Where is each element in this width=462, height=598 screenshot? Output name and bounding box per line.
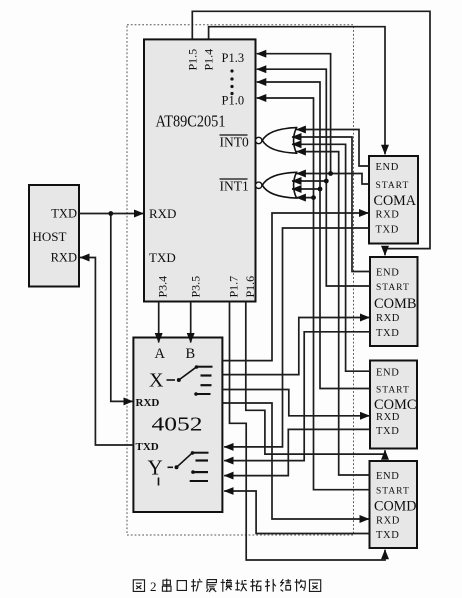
switch X contact 2 [201, 374, 212, 376]
wire branch COMC START to gate U3 input 3 [292, 188, 320, 190]
wire MCU P3.5 to 4052 B [190, 302, 192, 343]
wire COMA TXD to 4052 Y1 [224, 228, 369, 447]
switch X: pivot dot [177, 378, 181, 382]
switch Y: pivot dot [175, 465, 179, 469]
glyph 结 [280, 579, 291, 591]
glyph 模 [221, 579, 233, 592]
glyph 拓 [250, 579, 261, 592]
wire COMA START to gate U3 input 1 [296, 174, 369, 185]
junction dot START B / P1.2 [324, 179, 329, 184]
switch Y contact 3 [191, 470, 195, 474]
svg-text:RXD: RXD [376, 516, 400, 527]
svg-text:A: A [155, 346, 166, 362]
svg-text:P1.5: P1.5 [186, 49, 200, 71]
wire COMD START to MCU P1.0 [257, 98, 370, 490]
svg-text:4052: 4052 [152, 414, 203, 436]
svg-text:RXD: RXD [376, 313, 400, 324]
4052 multiplexer box [133, 338, 222, 513]
wire COMA END to gate U2 input 1 [296, 130, 369, 167]
switch Y contact 4 [190, 480, 208, 482]
svg-text:INT1: INT1 [220, 179, 249, 194]
gate U3 (4-input OR to INT1) body [262, 172, 296, 198]
glyph 扩 [191, 579, 202, 592]
wire COMC TXD to 4052 Y3 [224, 429, 370, 475]
gate U3 output bubble [256, 182, 262, 188]
MCU U1 AT89C2051 box [144, 39, 256, 301]
junction dot HOST TXD [108, 211, 113, 216]
svg-text:P3.5: P3.5 [189, 276, 203, 298]
svg-text:P1.7: P1.7 [227, 276, 241, 298]
svg-text:P1.3: P1.3 [222, 51, 245, 65]
COMC box [370, 361, 417, 449]
wire MCU P1.6 select to COMC bottom [246, 302, 385, 455]
svg-text:COMB: COMB [374, 296, 417, 312]
glyph 图 [310, 580, 321, 592]
svg-text:AT89C2051: AT89C2051 [156, 112, 226, 131]
svg-text:P1.4: P1.4 [202, 49, 216, 71]
svg-text:TXD: TXD [376, 426, 399, 437]
glyph 串 [162, 579, 171, 592]
ellipsis dots [230, 69, 233, 95]
wire COMD END to gate U2 input 4 [296, 152, 370, 475]
svg-text:TXD: TXD [376, 225, 399, 236]
svg-text:P1.0: P1.0 [222, 94, 245, 108]
gate U2 (4-input OR to INT0) body [262, 128, 296, 154]
wire MCU P1.7 select to COMD bottom [230, 302, 386, 561]
COMD box [370, 461, 418, 548]
svg-text:RXD: RXD [376, 210, 400, 221]
glyph 扑 [265, 579, 276, 592]
svg-text:RXD: RXD [136, 397, 160, 409]
svg-text:TXD: TXD [149, 250, 176, 265]
switch X: arm [179, 367, 196, 380]
wire COMC START to MCU P1.1 [257, 82, 370, 389]
glyph 块 [235, 580, 247, 591]
wire COMB TXD to 4052 Y2 [224, 332, 370, 461]
svg-text:START: START [376, 386, 410, 396]
svg-text:COMA: COMA [374, 193, 417, 209]
svg-text:Y: Y [148, 456, 163, 480]
Y channel tick [158, 478, 160, 486]
svg-text:START: START [376, 487, 410, 497]
HOST box [29, 185, 79, 287]
svg-text:P1.6: P1.6 [243, 276, 257, 298]
caption: 图 2 串口扩展模块拓扑结构图 [133, 579, 320, 594]
wire node COMA START to MCU P1.3 [257, 54, 331, 174]
wire MCU P1.4 select to COMA top [209, 27, 385, 155]
svg-text:P3.4: P3.4 [156, 276, 170, 298]
svg-text:HOST: HOST [33, 229, 67, 244]
switch Y: arm [177, 453, 193, 467]
svg-text:END: END [376, 162, 399, 173]
glyph 图 [133, 580, 144, 592]
wire COMB START to MCU P1.2 [257, 69, 370, 286]
glyph 展 [207, 580, 217, 592]
svg-text:COMD: COMD [374, 499, 417, 515]
wire 4052 X3 to COMC RXD [222, 390, 369, 416]
switch X contact 3 [201, 384, 212, 386]
wire 4052 X4 to COMD RXD [222, 403, 369, 519]
svg-text:RXD: RXD [149, 206, 176, 221]
wire COMD TXD to 4052 Y4 [224, 491, 369, 534]
svg-text:TXD: TXD [376, 530, 399, 541]
COMA box [369, 156, 418, 244]
wire COMC END to gate U2 input 3 [292, 144, 370, 371]
svg-text:TXD: TXD [51, 207, 77, 221]
gate U2 output bubble [256, 137, 262, 143]
svg-text:2: 2 [150, 579, 157, 594]
wire MCU P1.5 select to COMB top [192, 11, 430, 255]
switch X: pivot lead [167, 379, 176, 381]
svg-text:INT0: INT0 [220, 135, 249, 150]
switch X contact 4 [194, 392, 198, 396]
svg-text:RXD: RXD [376, 412, 400, 423]
glyph 构 [295, 579, 306, 592]
wire HOST TXD to MCU RXD [79, 213, 144, 215]
junction dot START D / P1.0 [311, 195, 316, 200]
svg-text:END: END [376, 368, 399, 379]
svg-text:START: START [376, 283, 410, 293]
junction dot START C / P1.1 [318, 187, 323, 192]
glyph 口 [177, 581, 186, 591]
svg-text:COMC: COMC [374, 397, 417, 413]
wire COMB END to gate U2 input 2 [292, 137, 370, 272]
glyph 2 [150, 579, 157, 594]
wire 4052 X2 to COMB RXD [222, 318, 369, 375]
svg-text:END: END [376, 268, 399, 279]
svg-text:START: START [376, 181, 410, 191]
svg-text:TXD: TXD [136, 441, 159, 453]
wire HOST TXD branch to 4052 RXD [111, 214, 133, 402]
dashed module border [127, 25, 354, 535]
wire branch COMB START to gate U3 input 2 [292, 180, 326, 182]
svg-text:X: X [149, 370, 164, 392]
switch Y contact 2 [196, 459, 209, 461]
svg-text:B: B [186, 346, 196, 362]
switch Y contact 1 [191, 451, 195, 455]
switch X contact 1 [195, 365, 199, 369]
svg-text:TXD: TXD [376, 328, 399, 339]
wire branch COMD START to gate U3 input 4 [296, 197, 313, 199]
wire 4052 TXD to HOST RXD [80, 258, 133, 446]
svg-text:RXD: RXD [51, 251, 77, 265]
wire 4052 X1 to COMA RXD [222, 213, 368, 361]
junction dot START A / P1.3 [328, 171, 333, 176]
switch Y: pivot lead [168, 466, 174, 468]
wire MCU P3.4 to 4052 A [158, 302, 160, 343]
svg-text:END: END [376, 471, 399, 482]
COMB box [370, 257, 418, 346]
